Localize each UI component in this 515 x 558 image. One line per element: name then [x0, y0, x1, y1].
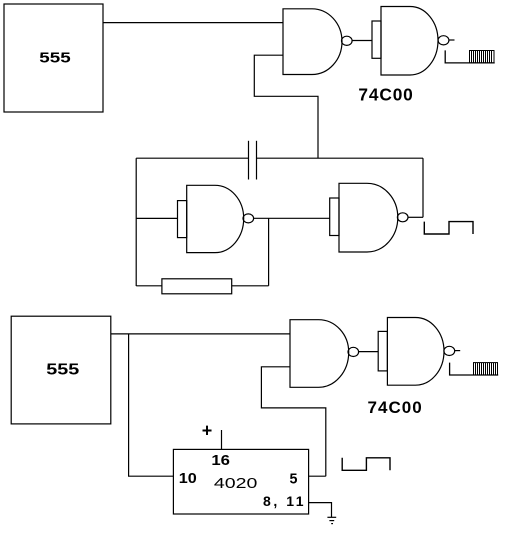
capacitor C1	[249, 141, 257, 180]
wire oscillator top rail (left of C1)	[136, 157, 248, 159]
wire left rail to U3a input bar	[136, 217, 177, 219]
resistor R1	[162, 279, 232, 294]
svg-text:555: 555	[46, 362, 79, 379]
wire U3b output	[408, 216, 423, 218]
wire bottom rail to resistor R1	[136, 285, 162, 287]
output bubble U5b	[444, 346, 455, 355]
NAND gate U3b	[339, 183, 398, 252]
IC U6 4020 counter box	[173, 449, 308, 514]
output bubble U2b	[438, 36, 449, 45]
IC U4 555 timer (bottom)	[11, 316, 111, 424]
wire U3b output feedback to top rail	[422, 158, 424, 217]
svg-text:4020: 4020	[214, 476, 258, 492]
input tie bar U2b	[372, 21, 381, 58]
output bubble U2a	[342, 36, 353, 45]
wire U5a output to U5b input bar	[359, 351, 379, 353]
tone burst waveform symbol (top)	[445, 50, 495, 63]
square wave symbol (bottom)	[342, 458, 390, 471]
wire U3a output to U3b input bar	[254, 217, 330, 219]
svg-text:555: 555	[39, 49, 70, 66]
wire resistor R1 to feedback node	[232, 285, 269, 287]
input tie bar U3a	[178, 201, 187, 238]
square wave symbol (middle)	[424, 222, 473, 234]
wire 4020 pin 5 output	[309, 475, 326, 477]
NAND gate U3a	[187, 185, 244, 252]
pin 16 lead	[221, 430, 223, 449]
svg-text:74C00: 74C00	[367, 398, 421, 417]
wire U5a input B from 4020 pin 5	[261, 367, 325, 476]
svg-text:10: 10	[179, 470, 197, 487]
wire U5b output stub	[455, 350, 461, 352]
ground symbol	[327, 517, 336, 523]
svg-text:74C00: 74C00	[358, 85, 412, 105]
wire U2a input B from oscillator top rail	[254, 55, 318, 158]
svg-text:5: 5	[290, 472, 298, 488]
wire U2a output to U2b input bar	[352, 40, 372, 42]
input tie bar U5b	[378, 331, 387, 371]
wire feedback vertical to U3a output node	[268, 218, 270, 285]
wire pins 8,11 to ground	[309, 503, 332, 518]
wire oscillator left rail	[135, 158, 137, 286]
svg-text:+: +	[202, 421, 213, 441]
wire U2b output stub	[449, 39, 455, 41]
wire U1 output to U2a input A	[103, 22, 283, 24]
NAND gate U2b	[381, 7, 438, 76]
NAND gate U5a	[290, 320, 349, 388]
tone burst waveform symbol (bottom)	[450, 363, 499, 375]
IC U1 555 timer (top)	[4, 4, 103, 112]
wire oscillator top rail (right of C1)	[257, 157, 424, 159]
NAND gate U2a	[283, 9, 342, 75]
wire junction to 4020 clock pin 10	[129, 334, 174, 476]
output bubble U5a	[348, 347, 359, 356]
svg-text:8, 11: 8, 11	[263, 493, 304, 509]
output bubble U3a	[243, 214, 254, 223]
output bubble U3b	[397, 213, 408, 222]
NAND gate U5b	[387, 318, 444, 386]
wire U4 output to U5a input A	[111, 333, 290, 335]
input tie bar U3b	[330, 198, 339, 236]
svg-text:16: 16	[211, 453, 230, 469]
